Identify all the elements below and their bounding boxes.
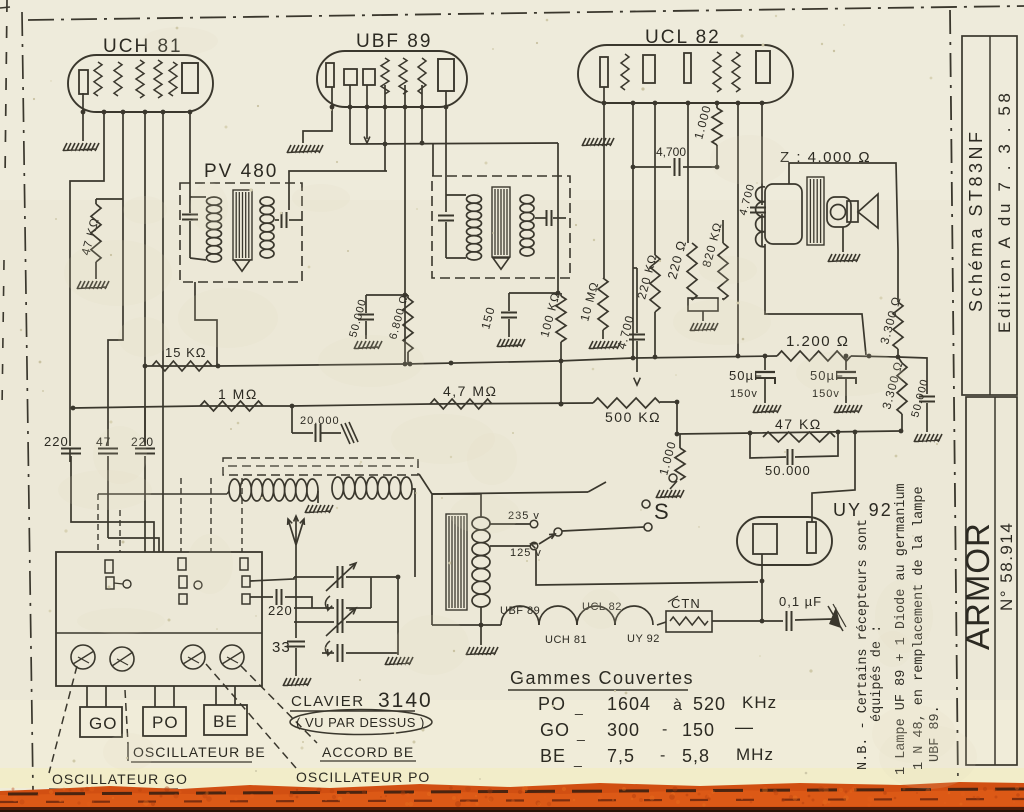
capacitor 220 osc [250,589,312,608]
wire UBF89 pin4 to PV480 secondary [383,85,388,171]
ground under 10 MOhm [589,341,621,349]
capacitor 150 pF label [478,305,497,331]
junction dots on AF bus [71,402,564,411]
wire PV480 secondary bottom out [195,282,217,366]
capacitor 4.700 pF AVC branch [629,268,645,372]
resistor 820 KOhm (vertical) [718,220,728,300]
wire jog into osc box b [108,538,159,552]
svg-text:-: - [662,721,668,738]
capacitor 20.000 with trimmer mark [292,406,341,442]
wire UCH81 pin3 down [108,112,123,446]
ground under 150 pF [497,339,525,347]
border frame left dash-dot line [22,12,33,790]
variable capacitor oscillator [326,563,398,591]
antenna symbol [288,516,305,545]
resistor 1.000 Ohm label [691,103,714,140]
resistor 220 KOhm (vertical) [650,103,660,359]
box PO [143,707,186,736]
tube UBF 89 label [356,31,432,52]
dashed pointer to ACCORD BE [241,666,317,743]
wire main HT bus [145,356,777,366]
resistor 1.200 Ohm label [786,333,849,350]
wire tuning loop right [370,577,372,608]
svg-text:_: _ [574,699,584,715]
resistor 4,7 MOhm label [443,383,497,399]
wire tuning right rail [396,575,401,655]
tap 235v wire and terminal [490,520,538,528]
label Edition A du 7.3.58 [995,90,1014,333]
resistor 1.200 Ohm (series in bus) [777,351,898,361]
label No 58.914 [997,522,1016,611]
label Gammes Couvertes [508,668,694,690]
thermistor CTN [666,611,712,632]
capacitor 0,1 uF label [779,594,822,609]
svg-text:300: 300 [607,720,640,740]
ground under tuning rail [385,657,413,665]
svg-text:UCH 81: UCH 81 [545,634,587,646]
capacitor 220 osc label [268,603,293,618]
coil PV480 secondary [260,197,274,258]
svg-text:UY 92: UY 92 [833,500,893,520]
capacitor 220 left [61,409,81,520]
svg-text:0,1 µF: 0,1 µF [779,594,822,609]
tube UCH 81 grid zigzag 2 [114,62,122,96]
row PO 1604 a 520 KHz [538,693,777,715]
wire BE box leads [216,686,235,705]
resistor 820 KOhm label [699,220,725,268]
output transformer label Z : 4.000 Ohm [780,149,871,166]
wire 47K parallel loop [750,433,838,458]
padder capacitor 2 [322,641,398,662]
resistor 500 KOhm (series) [593,398,679,408]
wire UCL82 pin1 down with ground [603,87,605,278]
antenna coil group 1 [229,479,318,501]
tube UCL 82 grid zigzag 3 [732,52,740,92]
tube UCH 81 electrode plate left [79,70,88,94]
tube UCH 81 pin junction dots [81,110,193,115]
oscillator block outer box [56,552,262,686]
tube UBF 89 grid zigzag 2 [399,58,407,94]
svg-text:1.200 Ω: 1.200 Ω [786,333,849,350]
svg-text:3140: 3140 [378,689,433,712]
connector circle at 1.000 bottom [669,474,677,489]
wire PO box leads [155,686,174,707]
box GO [80,707,122,737]
label ARMOR [959,522,996,650]
switch S pole1 contact [642,500,650,508]
resistor 6.800 Ohm label [387,293,410,340]
tube UBF 89 envelope [317,51,467,107]
label ACCORD BE [320,744,416,761]
transformer PV 480 dashed box [180,183,302,282]
svg-text:UY 92: UY 92 [627,633,660,645]
antenna coil group 2 [332,477,412,499]
resistor 3.300 Ohm lower label [879,359,905,410]
power transformer core [446,514,467,610]
resistor 15 KOhm label [165,345,206,360]
wire UBF89 pin6 short [420,85,425,145]
wire UCH81 pin2 down-left rail [70,112,104,409]
dashed drop lines into osc box [98,478,242,552]
svg-text:50µF: 50µF [729,368,763,383]
oscillator block inner divider [56,632,262,634]
tube UCL 82 pin dots [602,101,765,106]
light band above orange strip [0,768,1024,788]
row BE 7,5 5,8 MHz [540,745,774,767]
switch contact set B [178,558,202,604]
svg-text:PO: PO [152,713,179,732]
wire UBF89 pin7 anode down [445,91,447,212]
heater chain UBF89 label [500,605,540,617]
svg-text:PV 480: PV 480 [204,161,278,182]
capacitor 50uF no1 [755,354,775,403]
dial cord dashed frame [223,458,418,475]
ground under 50uF no2 [834,405,862,413]
heater chain UCH81 label [545,634,587,646]
capacitor PV480 primary tuning [182,215,198,259]
capacitor 220 left label [44,434,69,449]
ground under 1.000 dropper [656,490,684,498]
svg-text:-: - [660,747,666,764]
ground under 47 KOhm [77,281,109,289]
ground under 50.000 [354,341,382,349]
capacitor 0,1 uF [762,611,833,631]
core PV480 ferrite slug [233,190,252,260]
capacitor PV480 secondary tuning [275,212,302,228]
capacitor 50.000 label [347,297,369,338]
tube UCH 81 label [103,36,183,57]
IF transformer 2 dashed box [432,176,570,278]
wire 125v tap down to cathode line [536,550,758,585]
capacitor 4.700 pF output label [737,182,757,217]
orange scan strip [0,782,1024,812]
ground under UCH81 pin1 [63,143,99,151]
tube UBF 89 grid zigzag 1 [381,58,389,94]
capacitor IF2 primary [438,216,454,259]
wire heater line left [432,624,501,626]
core output transformer [807,177,824,245]
tube UCH 81 anode plate right [182,63,198,93]
svg-text:KHz: KHz [742,693,777,712]
tube UCL 82 grid zigzag 1 [621,54,629,90]
wire output transformer bottom return [765,244,866,355]
wire osc box to tuning section [250,577,294,581]
label Schema ST83NF [966,128,986,312]
wire transformer bottom to heater line [479,607,484,627]
heater chain UY92 label [627,633,660,645]
tube UCL 82 electrode 2 [643,55,655,83]
ground beside UCL82 pin1 [582,138,614,146]
ground under power transformer [466,625,498,655]
ground under 33 [283,678,311,686]
tube UCL 82 envelope [578,45,793,103]
tube UY 92 label [833,500,893,520]
svg-text:OSCILLATEUR PO: OSCILLATEUR PO [296,769,430,785]
tuning arrow PV480 [234,260,250,271]
wire coil top to mains [432,494,481,517]
wire jog into osc box a [71,520,154,552]
capacitor 4.700 pF across primary [750,208,766,248]
capacitor 47 [98,449,118,539]
wire bus left end to pin4 rail [144,365,146,367]
switch contact set A [105,560,131,589]
resistor 3.300 Ohm upper (vertical) [893,250,903,359]
tube UCH 81 grid zigzag 5 [169,62,177,96]
capacitor 220 mid label [131,435,154,449]
svg-text:7,5: 7,5 [607,746,635,766]
dashed pointer to OSCILLATEUR GO [49,666,77,773]
wire IF2 secondary down [556,143,561,295]
svg-text:( VU PAR DESSUS ): ( VU PAR DESSUS ) [296,715,425,730]
svg-text:4,700: 4,700 [656,145,686,159]
svg-text:150: 150 [682,720,715,740]
capacitor 220 mid [135,407,155,538]
svg-text:ACCORD BE: ACCORD BE [322,744,414,760]
capacitor 33 [287,642,305,677]
note lampe line 2 [912,486,927,770]
wire UCL82 pin5 down [687,103,689,243]
tube UY 92 anode plate [807,522,816,553]
wire GO box leads [87,686,106,707]
svg-text:GO: GO [89,714,117,733]
coil power transformer [472,517,490,607]
svg-text:500 KΩ: 500 KΩ [605,409,661,425]
junction dots on decoupling bus [675,429,904,437]
label CLAVIER 3140 [290,689,433,712]
title block cell 1 divider [989,36,991,395]
hatch mark at 20.000 [341,422,358,444]
tuning arrow IF2 [493,258,509,269]
capacitor 50uF no2 label [810,368,844,400]
tube UCH 81 grid zigzag 4 [154,60,162,98]
wire UBF89 pin1 to ground [303,87,332,143]
ground under UBF89 pin1 [287,145,323,153]
tube UBF 89 electrode left [326,63,334,87]
tube UY 92 envelope [737,517,832,565]
resistor 1 MOhm (series) [200,401,263,411]
tube UCL 82 electrode 3 [684,53,691,83]
ground under 50uF no1 [753,405,781,413]
wire mains top horizontal [432,492,588,494]
svg-text:520: 520 [693,694,726,714]
tube UCL 82 electrode 1 [600,57,608,87]
svg-text:GO: GO [540,720,570,740]
wire UCL82 pin2 long down to bus [631,103,636,360]
svg-text:UBF 89: UBF 89 [356,31,432,52]
wire speaker frame to ground [842,227,844,252]
title block cell 2 frame [966,397,1017,765]
switch S label [654,499,669,524]
svg-text:50.000: 50.000 [765,463,811,478]
wire UCH81 pin3 stub to 47K [96,198,123,200]
wire output transformer top to HT rail [789,163,898,250]
svg-text:N° 58.914: N° 58.914 [997,522,1016,611]
tube UCL 82 grid zigzag 2 [713,52,721,92]
switch S pole2 pivot circle [554,528,562,536]
wire loop joining 220/820 bottoms [688,298,723,311]
capacitor 50.000 decoupling [358,295,374,339]
wire switch pole2 [562,527,644,531]
resistor 3.300 Ohm lower (vertical) [897,357,907,431]
capacitor 4.700 pF label [656,145,686,159]
wire AF bus [73,403,593,408]
tube UBF 89 grid zigzag 3 [418,58,426,94]
wire coil feed dash [98,491,229,494]
trimmer capacitor 2 [110,647,134,671]
label OSCILLATEUR GO [49,771,188,789]
tube UBF 89 diode square 1 [344,69,357,85]
oval VU PAR DESSUS [290,710,432,735]
svg-text:PO: PO [538,694,566,714]
title block cell 2 divider [994,397,996,765]
coil output transformer primary [756,184,802,247]
wire UY92 anode to HT [812,432,855,522]
tap 235v label [508,510,540,522]
wire UBF89 pin3 arrow to AVC line [364,85,370,143]
junction dots on HT bus [143,359,564,369]
transformer PV 480 label [204,161,278,182]
svg-text:220: 220 [268,603,293,618]
arrow AVC pointing to bus [634,378,641,385]
trimmer capacitor 3 [181,645,205,669]
capacitor IF2 secondary [535,210,566,226]
wire UCH81 pin5 down [162,112,164,538]
resistor 47 KOhm bottom label [775,416,822,432]
svg-text:—: — [735,717,754,737]
wire AVC line to 100K node [350,143,558,144]
resistor 10 MOhm label [577,280,601,323]
variable capacitor BC [326,608,398,636]
capacitor 50.000 right label [909,377,931,418]
capacitor 50.000 parallel label [765,463,811,478]
tube UCL 82 label [645,27,721,48]
dashed pointer to OSCILLATEUR PO [206,664,296,768]
ground under 50.000 right [914,434,942,442]
tube UBF 89 anode plate [438,59,454,91]
switch contact set C [240,558,250,604]
svg-text:220: 220 [44,434,69,449]
tube UY 92 cathode plate [753,524,777,554]
border frame top dash-dot line [28,6,1024,20]
resistor 47 KOhm (vertical) [91,199,101,279]
orange strip mottling [12,786,1020,807]
svg-text:_: _ [576,725,586,741]
svg-text:N.B. - Certains récepteurs son: N.B. - Certains récepteurs sont [856,519,871,770]
wire pin5 rail into box [162,538,164,552]
svg-text:BE: BE [540,746,566,766]
heater chain UCL82 label [582,601,622,613]
wire UBF89 pin5 long down to bus [403,85,408,366]
resistor 3.300 Ohm label (upper) [877,294,903,345]
note lampe line 1 [894,483,909,775]
note lampe line 3 [928,705,943,762]
svg-text:_: _ [573,751,583,767]
svg-text:Gammes Couvertes: Gammes Couvertes [510,668,694,688]
wire 150pF to 100K node [509,292,558,294]
wire UCH81 pin4 down [144,112,146,446]
thermistor CTN label [668,596,701,611]
title block cell 1 frame [962,36,1017,395]
resistor 500 KOhm label [605,409,661,425]
svg-text:CLAVIER: CLAVIER [291,693,365,710]
capacitor 33 label [272,639,291,656]
note NB line 1 [856,519,871,770]
ground under 220/820 loop [690,311,718,331]
capacitor 4.700 pF AVC label [614,313,637,350]
resistor 100 KOhm (vertical) [556,293,566,406]
svg-text:S: S [654,499,669,524]
coil PV480 primary [190,197,222,262]
svg-text:OSCILLATEUR GO: OSCILLATEUR GO [52,771,188,787]
resistor 1.000 Ohm dropper label [656,439,679,476]
svg-text:CTN: CTN [671,596,701,611]
trimmer capacitor 4 [220,645,244,669]
wire CTN to UY92 cathode node [657,621,762,625]
wire joining 50.000/6.800 tops [366,293,408,298]
wire tuning top [294,576,334,578]
wire UCL82 anode to output transformer [761,103,763,205]
border frame right dash-dot line [950,10,958,786]
wire into osc box 1 [69,448,71,462]
svg-text:47 KΩ: 47 KΩ [775,416,822,432]
resistor 1.000 Ohm (UCL82 screen) [712,103,722,167]
svg-text:1 MΩ: 1 MΩ [218,386,258,402]
resistor 1 MOhm label [218,386,258,402]
capacitor 50uF no2 [836,354,856,403]
wire UCL82 pin6 down [736,103,741,358]
wire UBF89 pin2 start of AVC line [349,85,351,144]
wire tuning mid [294,621,334,623]
wire antenna down to 33pF [295,545,297,638]
svg-text:4,7 MΩ: 4,7 MΩ [443,383,497,399]
resistor 1.000 Ohm dropper (vertical) [675,434,685,480]
resistor 15 KOhm (series in bus) [152,361,212,371]
box BE [204,705,247,735]
wire PV480 secondary to UBF89 diode [289,171,387,210]
core IF2 ferrite slug [492,187,510,257]
tube UCH 81 grid zigzag 1 [94,62,102,96]
switch S pole2 contact [644,523,652,531]
tap 125v wire and terminal [490,542,538,550]
loudspeaker LS [827,194,878,228]
tube UCH 81 grid zigzag 3 [136,60,144,98]
capacitor 4.700 pF coupling [631,158,720,176]
resistor 4,7 MOhm (series) [430,399,492,409]
label OSCILLATEUR BE [128,744,266,762]
tube UBF 89 pin dots [330,105,449,110]
resistor 47 KOhm label [78,216,102,257]
dashed pointer to OSCILLATEUR BE [125,690,128,744]
border frame far-left edge marks [0,0,10,410]
tube UCH 81 envelope [68,55,213,112]
tube UBF 89 diode square 2 [363,69,375,85]
resistor 220 KOhm label [634,252,660,300]
ground under loudspeaker [828,254,860,262]
wire UCH81 pin6 into PV480 [189,112,191,213]
svg-text:150v: 150v [730,388,758,400]
svg-text:MHz: MHz [736,745,774,764]
resistor 220 Ohm (vertical) [687,243,697,300]
ground arrow right of 0,1uF [828,604,846,631]
resistor 100 KOhm label [537,290,563,338]
note NB line 2 [870,625,885,722]
padder capacitor 1 [294,596,371,617]
resistor 10 MOhm (vertical) [598,278,608,339]
ground between antenna coils [305,491,333,513]
label OSCILLATEUR PO [296,769,430,785]
wire UCH81 pin1 to ground [82,93,84,141]
wire mains top [419,474,432,625]
